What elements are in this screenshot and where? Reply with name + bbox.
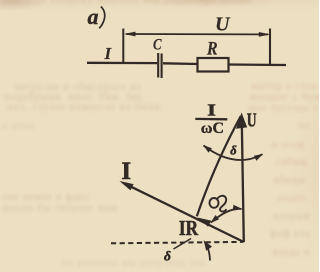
- svg-text:I: I: [207, 101, 216, 120]
- capacitor C1 left plate: [157, 53, 159, 78]
- phasor: IR arrowhead: [197, 218, 211, 227]
- phi arc left arrowhead: [210, 215, 219, 223]
- angle delta arc (top): [204, 146, 263, 161]
- phi arc right arrowhead: [233, 205, 243, 211]
- svg-text:ωC: ωC: [201, 120, 224, 137]
- dashed horizontal reference line: [111, 242, 243, 243]
- svg-text:U: U: [215, 14, 231, 36]
- delta arc right arrowhead: [254, 154, 263, 161]
- angle phi arc: [211, 209, 242, 223]
- wire middle segment: [163, 62, 198, 65]
- svg-text:I: I: [121, 158, 131, 185]
- phasor: vector U arrowhead: [236, 113, 247, 129]
- label phi (handwritten loop glyph): [210, 196, 227, 212]
- svg-text:δ: δ: [164, 249, 171, 264]
- dimension arrowhead left: [124, 32, 136, 37]
- svg-text:IR: IR: [179, 218, 199, 241]
- dimension line U: [126, 33, 268, 35]
- svg-text:C: C: [153, 36, 162, 54]
- delta angle arrow (bottom): [206, 244, 211, 261]
- dimension tick right: [269, 29, 271, 65]
- svg-text:U: U: [247, 109, 257, 131]
- phasor: vector I arrowhead: [119, 181, 133, 190]
- wire left segment: [87, 62, 157, 65]
- wire right segment: [229, 63, 287, 66]
- capacitor C1 right plate: [161, 54, 163, 79]
- phasor: vector I line: [131, 187, 244, 242]
- phasor: vector I/omegaC line: [197, 116, 241, 216]
- delta leader line: [174, 239, 192, 250]
- phasor: vector U vertical line: [242, 122, 244, 242]
- dimension arrowhead right: [259, 32, 271, 37]
- svg-text:R: R: [206, 37, 218, 59]
- dimension tick left: [122, 29, 124, 63]
- resistor R body: [198, 58, 229, 72]
- svg-text:I: I: [104, 44, 113, 63]
- svg-text:a: a: [88, 4, 99, 29]
- faint show-through text from reverse page side: [2, 0, 319, 6]
- delta angle arrowhead (bottom): [204, 240, 212, 251]
- delta arc left arrowhead: [203, 145, 212, 153]
- svg-text:δ: δ: [230, 143, 237, 157]
- fraction bar: [195, 118, 227, 121]
